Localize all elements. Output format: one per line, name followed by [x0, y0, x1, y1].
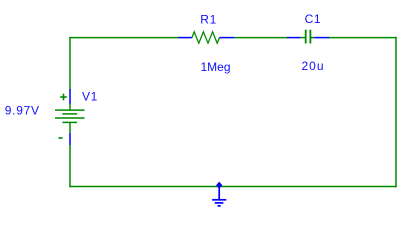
R1 pin 2 lead — [219, 37, 234, 39]
ground stem — [218, 185, 220, 200]
C1 right plate — [309, 30, 311, 44]
svg-text:R1: R1 — [200, 12, 217, 26]
wire top: left corner to R1 — [69, 37, 178, 39]
wire top: C1 to right corner — [329, 37, 397, 39]
battery V1 — [55, 89, 85, 145]
svg-text:1Meg: 1Meg — [201, 60, 231, 74]
wire left: top corner to V1 — [69, 37, 71, 90]
V1 long plate 1 — [55, 109, 85, 111]
V1 positive pin lead — [69, 89, 71, 104]
V1 top plate stub — [69, 104, 71, 110]
wire top: R1 to C1 — [234, 37, 287, 39]
capacitor C1 — [287, 30, 329, 44]
wire bottom — [69, 186, 396, 188]
V1 minus sign — [58, 137, 62, 139]
R1 zigzag body — [192, 32, 219, 43]
ground — [212, 185, 226, 206]
svg-text:9.97V: 9.97V — [5, 104, 40, 118]
C1 right plate stub — [311, 37, 314, 39]
svg-text:V1: V1 — [82, 90, 98, 104]
V1 negative pin lead — [69, 133, 71, 145]
ground bar 2 — [215, 202, 224, 204]
R1 pin 1 lead — [178, 37, 192, 39]
wire right side — [395, 37, 397, 187]
V1 long plate 2 — [55, 117, 85, 119]
ground bar 3 — [218, 205, 221, 207]
C1 left plate — [305, 30, 307, 44]
C1 left plate stub — [301, 37, 305, 39]
V1 short plate 2 — [62, 121, 77, 123]
V1 plus sign — [60, 96, 67, 98]
V1 short plate 1 — [62, 113, 77, 115]
resistor R1 — [178, 32, 234, 43]
V1 bottom plate stub — [69, 122, 71, 133]
C1 pin 2 lead — [314, 37, 329, 39]
svg-text:C1: C1 — [305, 12, 322, 26]
junction dot at ground node — [216, 182, 222, 189]
svg-text:20u: 20u — [302, 59, 325, 73]
ground bar 1 — [212, 199, 226, 201]
C1 pin 1 lead — [287, 37, 301, 39]
wire left: V1 to bottom corner — [69, 145, 71, 187]
